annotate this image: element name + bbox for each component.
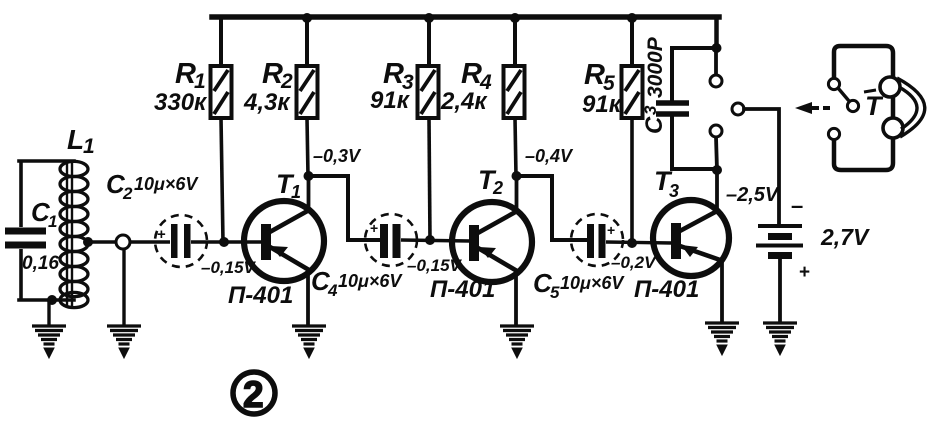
arrow plug insert: [795, 102, 830, 114]
plug pin contact middle: [847, 100, 858, 111]
terminal jack bottom: [710, 125, 722, 137]
svg-text:10μ×6V: 10μ×6V: [560, 273, 625, 293]
wire down to ground left: [47, 300, 50, 325]
transistor T1: [244, 201, 324, 281]
wire bottom node C1 to L1: [19, 298, 74, 302]
node junction on bus above R5: [627, 13, 637, 23]
svg-text:2: 2: [122, 184, 133, 203]
terminal circle antenna tap: [116, 235, 130, 249]
svg-text:R: R: [262, 58, 283, 90]
svg-text:91к: 91к: [582, 91, 623, 118]
node junction on bus above R4: [510, 13, 520, 23]
resistor R1: [211, 17, 232, 242]
svg-text:–0,2V: –0,2V: [611, 253, 657, 272]
ground under T3: [705, 323, 739, 355]
wire T1 emitter down: [306, 269, 310, 325]
ground under battery: [763, 323, 797, 355]
svg-text:1: 1: [291, 182, 301, 202]
svg-text:91к: 91к: [370, 87, 411, 114]
label C4: [311, 266, 403, 300]
wire L1 top to C1: [19, 159, 74, 163]
node junction below bus corner: [712, 43, 722, 53]
label T headphones: [864, 90, 884, 121]
node junction R5/base T3: [627, 238, 637, 248]
capacitor C2 electrolytic: [155, 215, 207, 267]
svg-text:–0,4V: –0,4V: [525, 146, 574, 166]
figure number 2: [233, 372, 275, 415]
wire T3 emitter down: [720, 259, 724, 323]
wire C4 to T2 base: [401, 240, 470, 241]
wire corner to C3 top: [672, 48, 717, 100]
label R5: [582, 59, 623, 118]
svg-text:4: 4: [327, 281, 338, 300]
svg-text:2: 2: [492, 178, 503, 198]
label T3: [654, 166, 679, 201]
resistor R2: [297, 17, 318, 176]
capacitor C4 electrolytic: [365, 214, 417, 266]
headphone plug outline: [834, 46, 893, 170]
label R3: [370, 58, 414, 114]
transistor T3: [653, 200, 729, 276]
svg-text:П-401: П-401: [634, 276, 699, 303]
wire tap to terminal: [88, 240, 116, 243]
label C1: [22, 197, 59, 274]
svg-text:R: R: [175, 58, 196, 90]
svg-text:T: T: [865, 91, 884, 121]
svg-text:3: 3: [669, 181, 679, 201]
transistor T2: [452, 202, 532, 282]
wire battery to ground: [778, 255, 782, 323]
node T2 collector -0.4V: [512, 171, 522, 181]
svg-text:10μ×6V: 10μ×6V: [338, 271, 403, 291]
svg-text:2,4к: 2,4к: [440, 88, 488, 115]
plug pin contact lower: [828, 128, 839, 139]
ground under C1/L1: [32, 326, 66, 358]
node T1 collector -0.3V: [304, 171, 314, 181]
headphone earpiece bottom: [883, 118, 903, 138]
svg-text:3: 3: [641, 105, 660, 115]
svg-text:5: 5: [550, 283, 560, 302]
svg-text:1: 1: [83, 135, 95, 158]
svg-text:+: +: [799, 262, 810, 283]
terminal jack top: [710, 75, 722, 87]
ground under T1: [292, 326, 326, 358]
plug pin contact upper: [828, 78, 839, 89]
label C5: [533, 268, 625, 302]
svg-text:3000Р: 3000Р: [644, 36, 667, 98]
label T2: [478, 165, 503, 198]
svg-text:10μ×6V: 10μ×6V: [134, 174, 199, 194]
battery B1: [756, 226, 803, 256]
svg-text:R: R: [383, 58, 404, 90]
wire terminal to C2: [130, 240, 170, 243]
node junction bottom left: [47, 295, 57, 305]
wire jack to battery: [744, 109, 779, 223]
ground under terminal: [107, 326, 141, 358]
wire T2 collector up: [515, 176, 519, 211]
svg-text:П-401: П-401: [228, 282, 293, 309]
resistor R4: [504, 17, 525, 176]
svg-text:1: 1: [48, 212, 57, 231]
headphone earpiece top: [880, 77, 900, 97]
svg-text:–0,3V: –0,3V: [313, 146, 362, 166]
wire to jack terminal top: [714, 48, 718, 75]
svg-text:4,3к: 4,3к: [243, 89, 291, 116]
capacitor C3: [656, 103, 689, 114]
label R2: [243, 58, 293, 116]
wire terminal down to ground: [122, 249, 125, 325]
svg-text:0,16: 0,16: [22, 253, 59, 274]
wire collector node to C4: [309, 176, 381, 240]
wire T2 emitter down: [514, 270, 518, 325]
svg-text:C: C: [641, 116, 668, 134]
wire top supply bus: [212, 14, 719, 20]
resistor R5: [622, 17, 643, 243]
svg-text:+: +: [157, 226, 166, 243]
label R4: [440, 58, 492, 115]
capacitor C5 electrolytic: [571, 214, 623, 266]
label R1: [154, 58, 208, 116]
capacitor C1: [5, 161, 46, 301]
svg-text:R: R: [584, 59, 605, 91]
wire C3 bottom to collector node: [672, 117, 717, 169]
resistor R3: [418, 17, 439, 240]
ground under T2: [500, 326, 534, 358]
node T3 collector -2.5V: [712, 165, 722, 175]
node junction on bus above R2: [302, 13, 312, 23]
wire T2 collector to C5: [517, 176, 588, 240]
label T1: [276, 169, 301, 202]
label C2: [106, 169, 199, 203]
node junction on bus above R3: [424, 13, 434, 23]
svg-text:L: L: [67, 124, 84, 155]
wire T1 collector up: [307, 176, 311, 210]
wire C5 to T3 base: [606, 242, 672, 243]
wire C2 to T1 base: [191, 240, 262, 243]
svg-text:330к: 330к: [154, 89, 208, 116]
inductor L1 coil: [60, 160, 88, 308]
svg-text:–2,5V: –2,5V: [726, 184, 780, 206]
svg-text:+: +: [370, 220, 378, 236]
svg-text:–: –: [791, 193, 803, 218]
svg-text:2,7V: 2,7V: [820, 224, 870, 250]
svg-text:+: +: [607, 222, 615, 238]
svg-text:2: 2: [243, 374, 264, 415]
node coil tap: [83, 237, 93, 247]
plug switch blade: [838, 88, 849, 101]
wire jack bottom to collector node: [716, 137, 717, 170]
svg-text:R: R: [461, 58, 482, 90]
node junction R1/base: [219, 237, 229, 247]
label L1: [67, 124, 95, 158]
headphone headband arcs: [897, 78, 925, 137]
terminal jack battery: [732, 103, 744, 115]
node junction R3/base T2: [425, 235, 435, 245]
svg-text:П-401: П-401: [430, 276, 495, 303]
wire T3 collector up: [715, 170, 719, 211]
wire bus right corner down: [714, 17, 719, 49]
